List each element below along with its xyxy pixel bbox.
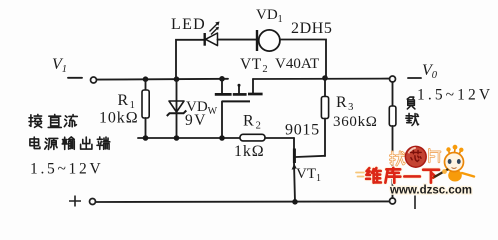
wire top rail right segment — [253, 78, 390, 80]
wire LED branch riser — [176, 40, 204, 79]
transistor VT2 (MOSFET V40AT) — [215, 56, 319, 138]
svg-text:V1: V1 — [52, 56, 67, 75]
wire VD1 to rail — [280, 40, 326, 78]
svg-text:VT2: VT2 — [240, 56, 268, 75]
watermark text weiku-yixia — [366, 168, 439, 183]
transistor VT1 9015 — [285, 122, 325, 203]
svg-text:10kΩ: 10kΩ — [99, 110, 139, 127]
label jie-zhi-liu (connect DC) — [29, 114, 77, 127]
label dian-yuan-shu-chu-duan (power output terminal) — [30, 137, 110, 149]
label 1.5-12V right — [417, 87, 493, 104]
resistor load — [389, 82, 396, 198]
svg-text:VT1: VT1 — [296, 166, 321, 184]
node bottom left terminal — [69, 196, 96, 207]
node junction gate — [219, 135, 225, 141]
node V1 input terminal — [52, 56, 97, 83]
svg-text:9V: 9V — [185, 112, 207, 129]
node junction LED/VDW top — [174, 76, 180, 82]
svg-text:www.dzsc.com: www.dzsc.com — [389, 185, 472, 197]
svg-text:9015: 9015 — [285, 122, 320, 139]
label 1.5-12V left — [30, 161, 103, 178]
node junction emitter bottom — [292, 199, 298, 205]
svg-text:VD1: VD1 — [256, 7, 283, 25]
node junction VDW bottom — [174, 135, 180, 141]
resistor R1 10k — [99, 79, 149, 138]
node junction R3/VD1 — [322, 75, 328, 81]
wire node line — [138, 137, 240, 139]
svg-text:1kΩ: 1kΩ — [234, 143, 265, 160]
svg-text:V40AT: V40AT — [275, 56, 319, 72]
node bottom right terminal — [390, 196, 416, 210]
svg-text:R1: R1 — [118, 92, 136, 111]
svg-text:2DH5: 2DH5 — [291, 20, 333, 37]
svg-text:1.5~12V: 1.5~12V — [30, 161, 103, 178]
node V0 output terminal — [390, 62, 438, 82]
watermark text www.dzsc.com — [389, 185, 472, 197]
svg-text:V0: V0 — [422, 62, 438, 81]
svg-text:R3: R3 — [336, 94, 354, 113]
LED D1 — [171, 16, 256, 46]
watermark mascot — [432, 145, 474, 182]
resistor R2 1k — [234, 113, 294, 161]
resistor R3 360k — [321, 78, 377, 156]
svg-text:R2: R2 — [243, 113, 262, 132]
svg-text:360kΩ: 360kΩ — [333, 114, 378, 130]
svg-text:1.5~12V: 1.5~12V — [417, 87, 493, 104]
svg-text:LED: LED — [171, 16, 206, 33]
label fu-zai (load) — [406, 97, 419, 125]
node junction R1 top — [143, 76, 149, 82]
node junction R1 bottom — [143, 135, 149, 141]
diode VD1 2DH5 — [256, 7, 333, 51]
zener diode VDW 9V — [167, 79, 218, 138]
node junction VT2 source — [219, 76, 225, 82]
wire top rail left segment — [97, 78, 228, 81]
wire bottom rail — [96, 200, 390, 203]
watermark logo — [356, 146, 440, 176]
